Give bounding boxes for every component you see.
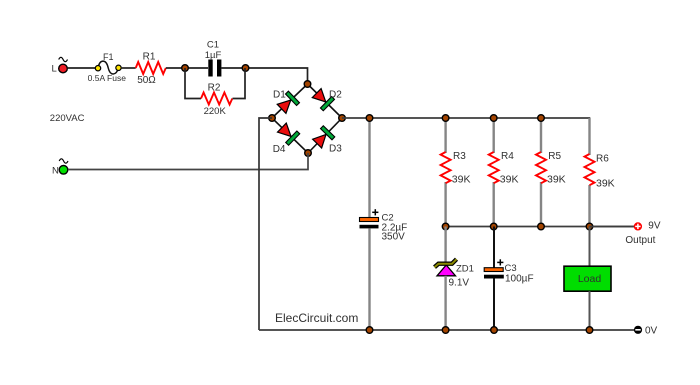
- resistor R4 column: [493, 118, 495, 153]
- node R3 top: [442, 115, 449, 122]
- svg-text:D1: D1: [273, 90, 286, 101]
- bridge arm bottom-right wire: [308, 118, 342, 153]
- wire Load column upper: [589, 227, 591, 267]
- svg-text:220VAC: 220VAC: [50, 113, 85, 124]
- svg-text:0V: 0V: [645, 326, 658, 337]
- wire C3 column lower: [493, 279, 495, 331]
- resistor R6 column: [588, 118, 590, 155]
- wire bridge left to 0V rail: [259, 118, 272, 330]
- resistor R3 column: [444, 118, 446, 153]
- wire bottom rail: [259, 329, 634, 331]
- svg-text:R6: R6: [596, 154, 609, 165]
- wire C2 column lower: [368, 228, 370, 330]
- diode D4: [276, 122, 299, 145]
- node C2 top: [366, 115, 373, 122]
- wire N to bridge bottom: [68, 153, 308, 170]
- svg-text:350V: 350V: [382, 232, 406, 243]
- svg-text:D2: D2: [329, 90, 342, 101]
- wire 9V output: [590, 226, 635, 228]
- svg-text:0.5A Fuse: 0.5A Fuse: [88, 73, 127, 83]
- diode D3: [311, 126, 334, 149]
- capacitor C2: [360, 209, 408, 243]
- node mid ZD1: [442, 223, 449, 230]
- svg-text:C3: C3: [505, 263, 517, 274]
- svg-text:R4: R4: [501, 151, 514, 162]
- wire R2 right leg: [233, 68, 246, 99]
- svg-text:39K: 39K: [452, 174, 471, 186]
- node mid C3: [490, 223, 497, 230]
- svg-text:R5: R5: [548, 151, 561, 162]
- bridge arm top-right wire: [308, 84, 343, 118]
- svg-text:220K: 220K: [204, 106, 227, 117]
- node bottom C2: [366, 327, 373, 334]
- capacitor C1: [205, 40, 222, 77]
- wire fuse to R1: [121, 67, 136, 69]
- svg-text:ZD1: ZD1: [456, 264, 474, 275]
- resistor R3: [441, 151, 471, 186]
- svg-text:R3: R3: [453, 151, 466, 162]
- svg-text:9.1V: 9.1V: [449, 278, 470, 289]
- terminal N: [52, 159, 68, 177]
- node bottom Load: [586, 327, 593, 334]
- node bridge bottom: [305, 150, 312, 157]
- svg-text:R2: R2: [208, 83, 221, 94]
- svg-text:L: L: [52, 64, 57, 75]
- wire ZD1 column lower: [444, 276, 446, 330]
- terminal 9V output: [625, 221, 660, 247]
- wire Load column lower: [589, 291, 591, 330]
- load box: [564, 266, 611, 291]
- svg-text:C1: C1: [207, 40, 219, 51]
- resistor R5: [536, 151, 566, 186]
- terminal 0V: [634, 326, 658, 337]
- wire C3 column upper: [493, 227, 495, 269]
- wire middle rail: [446, 226, 634, 228]
- svg-text:50Ω: 50Ω: [137, 75, 156, 86]
- fuse F1: [88, 52, 127, 83]
- node bridge right: [339, 115, 346, 122]
- node R4 top: [490, 115, 497, 122]
- capacitor C3: [484, 259, 534, 284]
- svg-text:100µF: 100µF: [505, 274, 534, 285]
- node B (C1/R2 right junction): [242, 65, 249, 72]
- node bridge top: [304, 81, 311, 88]
- resistor R4: [489, 151, 519, 186]
- node bottom ZD1: [442, 327, 449, 334]
- svg-text:Output: Output: [625, 235, 655, 246]
- node mid R5: [538, 223, 545, 230]
- node bridge left: [269, 115, 276, 122]
- wire C1 to bridge top: [221, 68, 308, 82]
- resistor R6: [585, 154, 615, 190]
- bridge arm top-left wire: [272, 84, 308, 118]
- svg-text:N: N: [52, 165, 59, 176]
- svg-text:39K: 39K: [547, 174, 566, 186]
- resistor R1: [136, 52, 166, 87]
- wire R1 to C1: [166, 67, 208, 69]
- svg-text:D3: D3: [329, 144, 342, 155]
- resistor R5 column: [540, 118, 542, 153]
- svg-text:39K: 39K: [500, 174, 519, 186]
- node bottom C3: [491, 327, 498, 334]
- node A (R1/C1/R2 junction): [182, 65, 189, 72]
- wire top rail: [342, 117, 590, 119]
- wire ZD1 column upper: [444, 227, 446, 263]
- svg-text:ElecCircuit.com: ElecCircuit.com: [275, 311, 358, 325]
- wire L to fuse: [68, 67, 96, 69]
- wire R2 left leg: [185, 68, 201, 99]
- svg-text:Load: Load: [578, 273, 602, 285]
- zener ZD1: [435, 259, 474, 288]
- node R5 top: [538, 115, 545, 122]
- svg-text:39K: 39K: [596, 178, 615, 190]
- wire C2 column upper: [368, 118, 370, 218]
- svg-text:1µF: 1µF: [205, 50, 222, 61]
- resistor R2: [201, 83, 232, 117]
- terminal L: [52, 57, 68, 74]
- svg-text:F1: F1: [103, 52, 114, 62]
- diode D1: [276, 91, 299, 114]
- diode D2: [311, 87, 334, 110]
- svg-text:D4: D4: [273, 144, 286, 155]
- svg-text:9V: 9V: [648, 221, 661, 232]
- svg-text:R1: R1: [143, 52, 156, 63]
- bridge arm bottom-left wire: [272, 118, 308, 153]
- node mid Load: [586, 223, 593, 230]
